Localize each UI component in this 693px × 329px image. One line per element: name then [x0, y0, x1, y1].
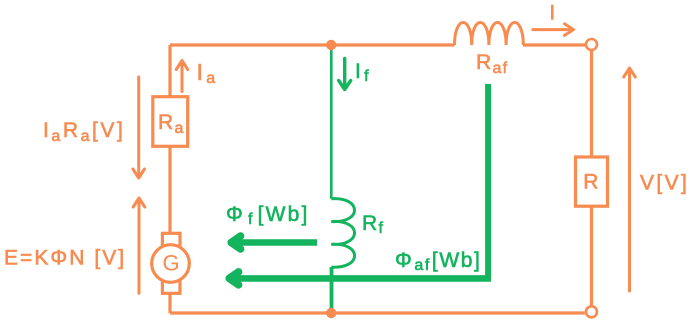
flux arrow phi f	[236, 239, 317, 246]
arrow V (up)	[624, 68, 636, 291]
current arrow Ia	[176, 61, 188, 92]
svg-text:Ia: Ia	[197, 59, 217, 87]
wire top-left segment	[170, 43, 455, 46]
svg-text:Φf[Wb]: Φf[Wb]	[226, 203, 310, 228]
wire right upper	[590, 51, 593, 158]
svg-text:R: R	[583, 170, 599, 193]
svg-text:I: I	[549, 2, 556, 25]
svg-text:Φaf[Wb]: Φaf[Wb]	[395, 249, 481, 274]
terminal top-right	[586, 39, 597, 50]
inductor Raf	[455, 23, 524, 46]
field branch wire (green) upper	[330, 47, 333, 199]
svg-text:If: If	[355, 60, 370, 85]
svg-text:E=KΦN [V]: E=KΦN [V]	[4, 247, 126, 270]
wire left middle	[168, 146, 171, 233]
generator G	[152, 233, 190, 293]
wire top-right segment	[523, 43, 585, 46]
svg-text:Rf: Rf	[362, 212, 384, 237]
junction node top	[326, 40, 336, 50]
svg-text:IaRa[V]: IaRa[V]	[43, 119, 125, 145]
wire right lower	[590, 206, 593, 306]
wire left lower	[168, 293, 171, 313]
inductor Rf	[331, 199, 354, 268]
flux line vertical (phi af)	[485, 84, 491, 278]
terminal bottom-right	[586, 306, 597, 317]
svg-text:Raf: Raf	[476, 51, 508, 77]
field branch wire (green) lower	[330, 267, 334, 313]
junction node bottom	[326, 308, 336, 318]
svg-text:V[V]: V[V]	[640, 172, 689, 195]
current arrow If	[339, 59, 351, 90]
svg-text:G: G	[162, 251, 179, 276]
arrow IaRa drop (down)	[133, 77, 145, 178]
flux arrow phi af	[234, 275, 491, 282]
wire left upper	[168, 45, 171, 97]
resistor R	[576, 157, 608, 206]
wire bottom	[170, 311, 585, 314]
resistor Ra	[153, 97, 188, 147]
current arrow I (right)	[533, 24, 574, 36]
arrow E (up)	[133, 198, 145, 293]
